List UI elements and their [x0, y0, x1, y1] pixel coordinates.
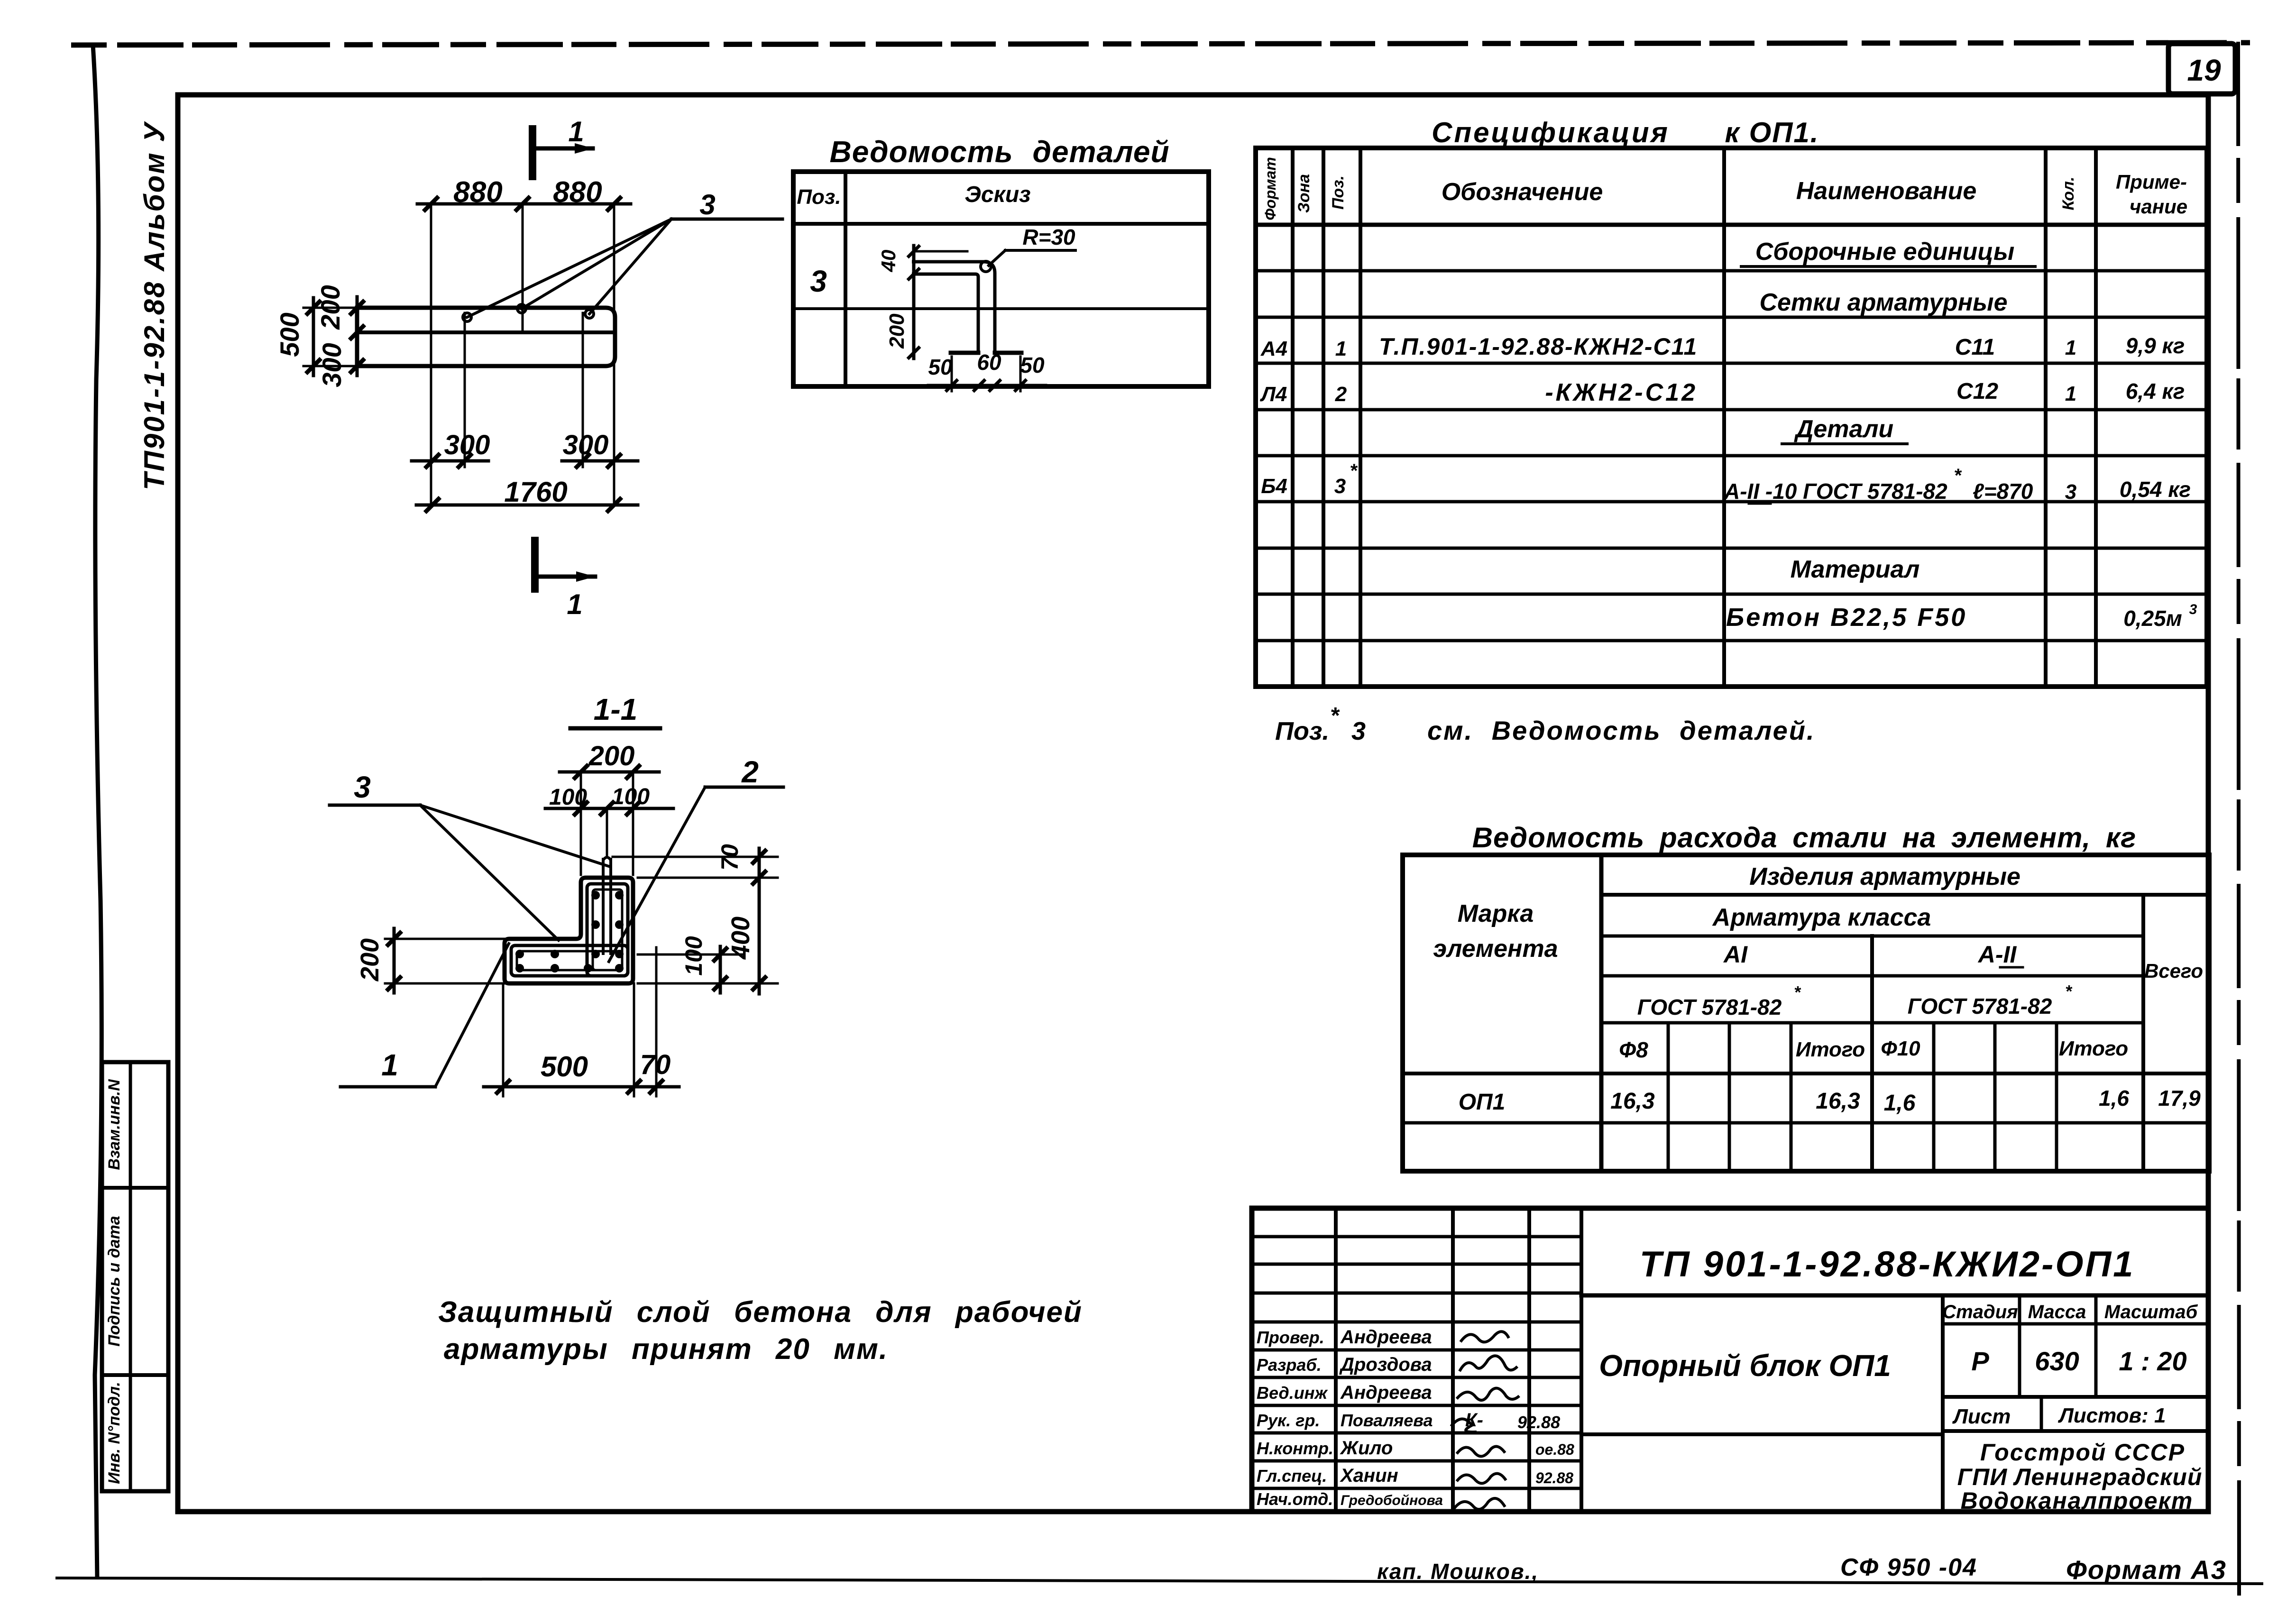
svg-text:Ханин: Ханин [1340, 1465, 1398, 1486]
svg-text:1-1: 1-1 [594, 692, 638, 726]
svg-text:Обозначение: Обозначение [1442, 178, 1603, 206]
svg-text:200: 200 [356, 938, 384, 982]
svg-text:17,9: 17,9 [2158, 1086, 2201, 1110]
section rebar dots [591, 891, 600, 899]
section right dim chain 70/400 [613, 856, 778, 858]
svg-text:Материал: Материал [1791, 556, 1920, 583]
svg-text:С12: С12 [1956, 379, 1998, 404]
page number box 19 [2168, 44, 2235, 94]
plan view left dims 500/200/300 [312, 298, 315, 376]
svg-text:60: 60 [977, 350, 1001, 375]
svg-text:Ведомость деталей: Ведомость деталей [829, 135, 1169, 169]
svg-text:Наименование: Наименование [1796, 177, 1977, 205]
svg-text:Формат: Формат [1262, 157, 1279, 220]
paper torn edge left [93, 45, 101, 1579]
svg-text:1,6: 1,6 [2099, 1086, 2129, 1110]
svg-text:6,4 кг: 6,4 кг [2126, 379, 2185, 404]
svg-text:Инв. N°подл.: Инв. N°подл. [105, 1382, 123, 1484]
svg-text:чание: чание [2130, 195, 2187, 218]
signatures [1460, 1331, 1509, 1342]
svg-text:к ОП1.: к ОП1. [1725, 117, 1819, 148]
svg-text:ГПИ Ленинградский: ГПИ Ленинградский [1957, 1464, 2203, 1490]
svg-text:1: 1 [568, 116, 584, 147]
svg-text:Рук. гр.: Рук. гр. [1257, 1411, 1320, 1430]
stamp box strip [102, 1062, 168, 1491]
section concrete outline L-shape [505, 878, 633, 983]
svg-text:Р: Р [1971, 1346, 1989, 1376]
svg-text:Итого: Итого [1796, 1038, 1865, 1061]
svg-text:Всего: Всего [2144, 960, 2203, 982]
svg-text:см. Ведомость деталей.: см. Ведомость деталей. [1427, 716, 1816, 745]
svg-text:*: * [1794, 982, 1801, 1002]
svg-text:1760: 1760 [504, 476, 567, 508]
section pedestal stirrup [587, 884, 628, 976]
paper torn edge right [2238, 42, 2239, 1596]
svg-text:Дроздова: Дроздова [1339, 1354, 1432, 1375]
svg-text:Спецификация: Спецификация [1432, 117, 1670, 148]
title block list row [1943, 1429, 2208, 1433]
plan view: section marker 1 bottom [531, 541, 539, 589]
svg-text:Лист: Лист [1952, 1405, 2011, 1428]
svg-text:1: 1 [2065, 336, 2076, 359]
section left dim 200 [385, 938, 505, 940]
svg-text:16,3: 16,3 [1610, 1089, 1655, 1114]
svg-text:2: 2 [1335, 383, 1347, 406]
svg-text:Нач.отд.: Нач.отд. [1257, 1489, 1333, 1509]
details list table frame [793, 172, 1209, 386]
svg-text:Масса: Масса [2028, 1302, 2086, 1322]
svg-text:ОП1: ОП1 [1459, 1090, 1506, 1115]
specification table frame [1256, 148, 2207, 687]
section anchor pin [602, 859, 605, 954]
plan view dim 300 right [562, 459, 638, 463]
svg-text:1,6: 1,6 [1884, 1091, 1916, 1116]
svg-text:92.88: 92.88 [1535, 1469, 1573, 1486]
svg-text:*: * [1330, 703, 1340, 728]
title block name box [1581, 1432, 1943, 1436]
svg-text:200: 200 [588, 741, 635, 771]
svg-text:3: 3 [699, 189, 715, 220]
svg-text:1 : 20: 1 : 20 [2119, 1346, 2186, 1376]
svg-text:Поз.: Поз. [1329, 175, 1347, 210]
svg-text:Ведомость расхода стали на: Ведомость расхода стали на элемент, кг [1472, 822, 2137, 853]
plan view: section marker 1 top [529, 129, 536, 176]
svg-text:Т.П.901-1-92.88-КЖН2-С11: Т.П.901-1-92.88-КЖН2-С11 [1379, 333, 1698, 360]
svg-text:*: * [2065, 982, 2073, 1001]
svg-text:Разраб.: Разраб. [1257, 1355, 1322, 1375]
svg-text:А-II: А-II [1977, 941, 2017, 968]
svg-text:арматуры принят 20 мм.: арматуры принят 20 мм. [444, 1333, 888, 1366]
svg-text:880: 880 [553, 176, 602, 209]
svg-text:500: 500 [541, 1051, 588, 1083]
steel table frame [1403, 855, 2209, 1171]
svg-text:ТП 901-1-92.88-КЖИ2-ОП1: ТП 901-1-92.88-КЖИ2-ОП1 [1640, 1244, 2135, 1285]
svg-text:ГОСТ 5781-82: ГОСТ 5781-82 [1908, 994, 2052, 1018]
svg-text:200: 200 [885, 313, 909, 349]
svg-text:Н.контр.: Н.контр. [1257, 1439, 1333, 1458]
svg-text:Поваляева: Поваляева [1341, 1411, 1433, 1430]
svg-text:Поз.: Поз. [797, 185, 841, 209]
svg-text:1: 1 [567, 588, 582, 620]
title block stadia/massa/masshtab [1943, 1322, 2208, 1326]
detail 3 sketch: bent pin [912, 262, 995, 351]
paper torn edge top [71, 43, 2250, 45]
svg-text:А-II -10 ГОСТ 5781-82: А-II -10 ГОСТ 5781-82 [1724, 479, 1947, 504]
svg-text:0,25м: 0,25м [2123, 606, 2182, 631]
svg-text:Изделия арматурные: Изделия арматурные [1749, 863, 2020, 890]
svg-text:К-: К- [1465, 1410, 1483, 1431]
plan view concrete block [357, 308, 615, 366]
svg-text:Б4: Б4 [1261, 475, 1287, 498]
svg-text:Сетки арматурные: Сетки арматурные [1759, 289, 2007, 316]
svg-text:СФ 950 -04: СФ 950 -04 [1840, 1554, 1977, 1581]
svg-text:Гл.спец.: Гл.спец. [1257, 1466, 1327, 1486]
svg-text:Провер.: Провер. [1257, 1328, 1324, 1347]
svg-text:Сборочные единицы: Сборочные единицы [1755, 238, 2015, 266]
svg-text:3: 3 [810, 264, 827, 298]
section bottom dims 500/70 [502, 983, 505, 1096]
svg-text:Итого: Итого [2059, 1037, 2128, 1060]
svg-text:19: 19 [2187, 53, 2221, 87]
svg-text:92.88: 92.88 [1517, 1413, 1560, 1432]
svg-text:630: 630 [2035, 1346, 2079, 1376]
svg-text:Масштаб: Масштаб [2104, 1302, 2198, 1322]
title block designation box [1581, 1294, 2208, 1298]
svg-text:0,54 кг: 0,54 кг [2120, 477, 2191, 502]
svg-text:Л4: Л4 [1260, 383, 1287, 406]
svg-text:ГОСТ 5781-82: ГОСТ 5781-82 [1637, 995, 1782, 1019]
svg-text:Подпись и дата: Подпись и дата [105, 1216, 123, 1347]
svg-text:100: 100 [612, 784, 650, 809]
detail sketch bottom dims 50/60/50 [928, 384, 1046, 387]
svg-text:Зона: Зона [1295, 174, 1313, 213]
svg-text:Марка: Марка [1458, 900, 1534, 927]
plan view: dimension 880+880 [417, 202, 631, 206]
svg-text:элемента: элемента [1433, 935, 1558, 963]
svg-text:А4: А4 [1260, 337, 1287, 360]
plan view dim 1760 [416, 504, 638, 507]
svg-text:Андреева: Андреева [1340, 1382, 1432, 1403]
svg-text:1: 1 [2065, 382, 2076, 405]
svg-text:Госстрой СССР: Госстрой СССР [1980, 1439, 2185, 1466]
svg-text:Эскиз: Эскиз [964, 182, 1030, 207]
detail sketch left dims 40/200 [912, 246, 916, 358]
svg-text:Формат А3: Формат А3 [2066, 1555, 2227, 1585]
section base stirrup [511, 945, 628, 976]
svg-text:3: 3 [1334, 475, 1346, 498]
svg-text:Защитный слой бетона для р: Защитный слой бетона для рабочей [438, 1296, 1083, 1329]
svg-text:500: 500 [275, 312, 304, 357]
svg-text:16,3: 16,3 [1816, 1089, 1860, 1114]
svg-text:ТП901-1-92.88 Альбом У: ТП901-1-92.88 Альбом У [138, 121, 170, 490]
svg-text:1: 1 [1335, 337, 1347, 360]
svg-text:70: 70 [716, 844, 743, 871]
plan view dim 300 left [412, 459, 488, 463]
svg-text:2: 2 [741, 755, 759, 789]
svg-text:*: * [1954, 465, 1962, 486]
svg-text:R=30: R=30 [1022, 225, 1075, 249]
svg-text:Жило: Жило [1340, 1438, 1393, 1459]
svg-text:3: 3 [2065, 480, 2076, 504]
svg-text:-КЖН2-С12: -КЖН2-С12 [1545, 379, 1698, 406]
svg-text:3: 3 [1351, 717, 1366, 745]
section inner dim 100 [638, 954, 742, 956]
svg-text:300: 300 [444, 430, 490, 460]
svg-text:Андреева: Андреева [1340, 1327, 1432, 1348]
svg-text:400: 400 [726, 917, 755, 960]
svg-text:1: 1 [381, 1048, 398, 1082]
svg-text:Вед.инж: Вед.инж [1257, 1383, 1328, 1403]
svg-text:880: 880 [453, 176, 502, 209]
svg-text:ое.88: ое.88 [1535, 1441, 1574, 1458]
svg-text:Детали: Детали [1794, 415, 1893, 443]
svg-text:3: 3 [2189, 602, 2197, 617]
svg-text:Листов: 1: Листов: 1 [2058, 1404, 2166, 1427]
svg-text:ℓ=870: ℓ=870 [1973, 479, 2033, 504]
plan view pin circles [463, 313, 471, 321]
svg-text:Взам.инв.N: Взам.инв.N [105, 1079, 123, 1170]
svg-text:Опорный блок ОП1: Опорный блок ОП1 [1599, 1349, 1891, 1383]
svg-text:9,9 кг: 9,9 кг [2126, 333, 2185, 358]
svg-text:Стадия: Стадия [1942, 1302, 2018, 1322]
svg-text:100: 100 [680, 936, 707, 976]
paper torn edge bottom [57, 1578, 2262, 1584]
svg-text:50: 50 [1020, 353, 1045, 377]
svg-text:Кол.: Кол. [2059, 177, 2077, 211]
svg-text:Поз.: Поз. [1275, 717, 1329, 745]
svg-text:70: 70 [640, 1049, 671, 1080]
svg-text:АI: АI [1723, 941, 1748, 968]
svg-text:40: 40 [877, 250, 900, 273]
svg-text:*: * [1350, 460, 1358, 481]
plan view extension lines [430, 204, 432, 505]
svg-text:Водоканалпроект: Водоканалпроект [1961, 1487, 2194, 1514]
svg-text:Арматура класса: Арматура класса [1712, 904, 1931, 931]
svg-text:Приме-: Приме- [2116, 171, 2187, 193]
svg-text:3: 3 [354, 770, 371, 804]
sheet frame [178, 95, 2208, 1512]
svg-text:Гредобойнова: Гредобойнова [1341, 1493, 1443, 1508]
svg-text:Ф8: Ф8 [1619, 1037, 1648, 1062]
svg-text:50: 50 [928, 355, 953, 379]
title block outer [1252, 1208, 2208, 1512]
svg-text:Ф10: Ф10 [1881, 1037, 1920, 1060]
svg-text:С11: С11 [1955, 335, 1995, 360]
section extension lines top [580, 772, 582, 875]
svg-text:Бетон В22,5 F50: Бетон В22,5 F50 [1726, 603, 1967, 632]
svg-text:кап. Мошков.,: кап. Мошков., [1377, 1559, 1539, 1584]
svg-text:300: 300 [563, 430, 609, 460]
